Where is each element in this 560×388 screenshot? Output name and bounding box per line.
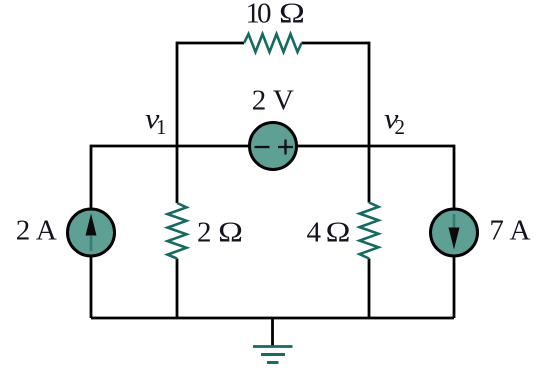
- svg-text:1: 1: [156, 115, 167, 139]
- node v1: [145, 103, 167, 139]
- resistor R 10ohm: [244, 34, 302, 52]
- wire left inner vertical: [176, 42, 179, 203]
- svg-text:2: 2: [197, 217, 212, 249]
- wire left outer vertical: [90, 145, 93, 318]
- svg-text:2 V: 2 V: [252, 85, 294, 117]
- node v2: [384, 103, 405, 139]
- svg-text:Ω: Ω: [326, 216, 351, 248]
- svg-text:Ω: Ω: [218, 216, 243, 248]
- svg-text:2 A: 2 A: [16, 215, 57, 247]
- current source I1 2A: [68, 209, 115, 256]
- svg-text:7 A: 7 A: [489, 215, 530, 247]
- ground: [253, 318, 293, 363]
- voltage source V1 2V: [250, 123, 297, 170]
- wire top rail: [177, 42, 369, 45]
- resistor R 2ohm: [168, 203, 187, 259]
- wire left inner vertical lower: [176, 259, 179, 319]
- svg-text:Ω: Ω: [279, 0, 305, 29]
- svg-text:2: 2: [395, 115, 406, 139]
- resistor R 4ohm: [360, 203, 379, 259]
- wire right inner vertical: [368, 42, 371, 203]
- wire middle rail: [91, 145, 454, 148]
- wire right inner vertical lower: [368, 259, 371, 319]
- svg-text:4: 4: [307, 217, 322, 249]
- svg-text:0: 0: [257, 0, 272, 30]
- wire bottom rail: [91, 317, 454, 320]
- current source I2 7A: [431, 209, 478, 256]
- wire right outer vertical: [453, 145, 456, 318]
